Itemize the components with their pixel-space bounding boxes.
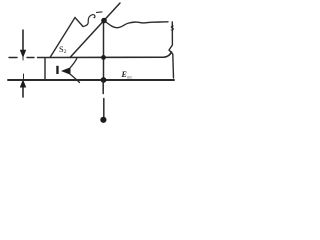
wire: upper horizontal bus A — [46, 52, 172, 58]
node: top junction — [101, 18, 107, 24]
polarity dash — [97, 11, 103, 14]
label I — [56, 66, 58, 74]
node: bottom terminal — [100, 117, 106, 123]
node: on bus B — [101, 77, 107, 83]
switch S2 blade — [50, 18, 83, 58]
switch blade diagonal through node — [70, 3, 120, 58]
wire: bottom stub lower segment — [103, 99, 105, 118]
wire: lower horizontal bus B — [8, 79, 174, 81]
wire: right vertical drop — [169, 22, 174, 78]
wire: top lead to the right — [104, 21, 168, 28]
wire: bottom stub upper segment — [102, 80, 104, 94]
flexible lead (squiggle) — [83, 15, 95, 27]
centerline (dash-dot) left of gap — [9, 57, 45, 59]
wire: left vertical of contact box — [44, 58, 46, 80]
dimension arrow down (upper) — [22, 30, 24, 51]
svg-text:Eав.: Eав. — [121, 70, 133, 81]
svg-text:S2: S2 — [59, 44, 67, 55]
node: on bus A — [101, 55, 106, 60]
current arrow I into contact — [61, 67, 71, 75]
dimension arrow up (lower) — [22, 86, 24, 97]
wire: middle vertical — [103, 21, 105, 81]
